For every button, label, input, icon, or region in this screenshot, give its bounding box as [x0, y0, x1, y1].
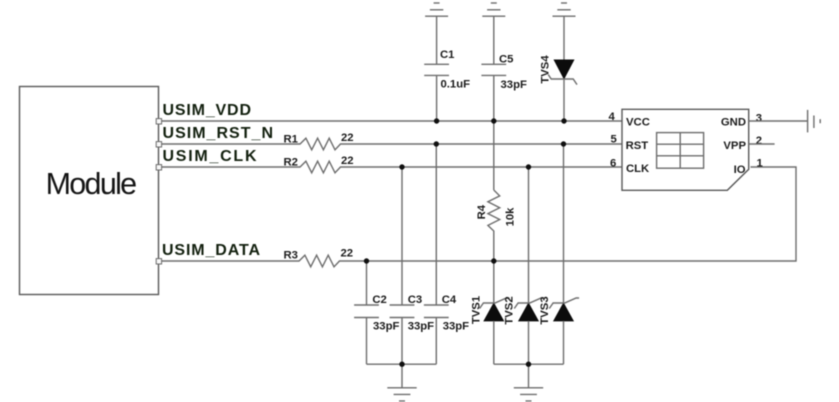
svg-text:TVS4: TVS4 — [540, 55, 552, 84]
svg-text:CLK: CLK — [626, 163, 650, 175]
svg-text:RST: RST — [626, 140, 649, 152]
svg-text:R3: R3 — [284, 250, 298, 262]
svg-text:USIM_RST_N: USIM_RST_N — [163, 125, 274, 142]
svg-text:USIM_DATA: USIM_DATA — [162, 242, 260, 259]
svg-text:R1: R1 — [284, 134, 298, 146]
svg-text:5: 5 — [611, 134, 617, 146]
svg-text:0.1uF: 0.1uF — [441, 79, 471, 91]
svg-text:VCC: VCC — [626, 117, 650, 129]
svg-text:3: 3 — [756, 112, 762, 124]
svg-text:USIM_CLK: USIM_CLK — [163, 148, 257, 165]
svg-text:33pF: 33pF — [373, 321, 399, 333]
svg-text:2: 2 — [756, 135, 762, 147]
svg-text:22: 22 — [341, 155, 354, 167]
svg-text:33pF: 33pF — [501, 79, 527, 91]
svg-text:4: 4 — [609, 111, 616, 123]
svg-text:33pF: 33pF — [443, 321, 469, 333]
svg-text:C5: C5 — [499, 54, 513, 66]
svg-text:22: 22 — [341, 132, 354, 144]
svg-text:C1: C1 — [440, 49, 454, 61]
svg-text:TVS3: TVS3 — [539, 296, 551, 324]
svg-text:22: 22 — [341, 248, 354, 260]
svg-text:6: 6 — [610, 158, 616, 170]
svg-text:Module: Module — [46, 167, 138, 201]
svg-text:C3: C3 — [408, 294, 422, 306]
svg-text:R2: R2 — [284, 157, 298, 169]
svg-text:IO: IO — [734, 164, 746, 176]
svg-text:USIM_VDD: USIM_VDD — [163, 102, 252, 119]
svg-text:VPP: VPP — [723, 140, 746, 152]
svg-text:R4: R4 — [476, 204, 488, 219]
svg-text:GND: GND — [721, 117, 746, 129]
svg-text:C4: C4 — [442, 294, 457, 306]
svg-text:10k: 10k — [505, 207, 517, 227]
svg-text:33pF: 33pF — [408, 321, 434, 333]
svg-text:C2: C2 — [372, 294, 386, 306]
svg-text:TVS2: TVS2 — [504, 296, 516, 324]
svg-text:TVS1: TVS1 — [471, 296, 483, 324]
svg-text:1: 1 — [757, 158, 763, 170]
